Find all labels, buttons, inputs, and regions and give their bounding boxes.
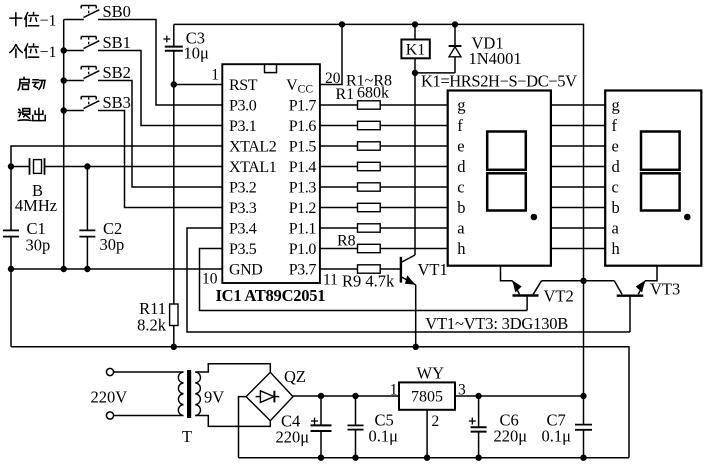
terminal 220V bottom — [106, 412, 113, 419]
junction 7805 out-mid vertical — [581, 393, 586, 398]
svg-text:P3.0: P3.0 — [229, 98, 257, 115]
junction K1 bottom — [412, 70, 417, 75]
transformer T core — [188, 371, 191, 418]
svg-text:P3.1: P3.1 — [229, 118, 257, 135]
junction pin20-rail — [339, 22, 344, 27]
svg-text:P3.2: P3.2 — [229, 180, 257, 197]
junction C7 bottom — [581, 455, 586, 460]
op-amp/IC U1 AT89C2051 box — [222, 64, 320, 283]
svg-text:RST: RST — [229, 77, 258, 94]
digit DS2 — [641, 132, 680, 211]
svg-text:T: T — [182, 427, 192, 446]
wire 7805 pin2 — [426, 410, 428, 458]
capacitor C6 — [471, 396, 487, 458]
capacitor C5 — [348, 396, 364, 458]
wire SB1 to P3.1 — [98, 51, 222, 126]
relay K1 — [401, 24, 429, 73]
junction SB3 bus — [61, 108, 66, 113]
pushbutton SB3 — [81, 97, 99, 109]
svg-text:1: 1 — [211, 67, 219, 84]
transformer T secondary winding — [195, 372, 200, 416]
svg-text:8.2k: 8.2k — [137, 316, 167, 335]
junction K1-rail — [412, 22, 417, 27]
resistor R3 — [320, 142, 448, 150]
svg-text:e: e — [612, 137, 619, 156]
svg-text:c: c — [457, 178, 464, 197]
svg-text:30p: 30p — [26, 236, 51, 255]
wire SB0 to P3.0 — [98, 20, 222, 106]
junction RST-C3 — [171, 82, 176, 87]
svg-text:XTAL2: XTAL2 — [229, 139, 277, 156]
svg-text:P1.2: P1.2 — [289, 200, 317, 217]
junction C4 bottom — [318, 455, 323, 460]
svg-text:220μ: 220μ — [276, 428, 310, 447]
wire XTAL2 to left column — [11, 146, 222, 230]
svg-text:P1.0: P1.0 — [289, 241, 317, 258]
label qi (chinese) — [18, 77, 29, 90]
crystal B — [30, 158, 45, 175]
svg-text:c: c — [612, 178, 619, 197]
label chu (chinese) — [33, 108, 45, 120]
wire bridge plus to regulator — [293, 395, 399, 397]
pushbutton SB0 — [81, 6, 99, 18]
svg-text:0.1μ: 0.1μ — [542, 427, 572, 446]
svg-text:K1: K1 — [406, 42, 426, 59]
wire segment c DS1-DS2 — [551, 186, 605, 188]
wire secondary top to bridge — [195, 364, 270, 373]
svg-text:−1: −1 — [40, 44, 57, 61]
svg-text:220μ: 220μ — [494, 427, 528, 446]
svg-text:h: h — [457, 239, 466, 258]
svg-text:QZ: QZ — [284, 367, 306, 386]
pushbutton SB1 — [81, 37, 99, 49]
wire GND pin to left column — [11, 268, 222, 270]
junction R11-ground rail — [171, 344, 176, 349]
svg-text:e: e — [457, 137, 464, 156]
svg-text:K1=HRS2H−S−DC−5V: K1=HRS2H−S−DC−5V — [421, 72, 577, 91]
junction collectors-+5V — [581, 278, 586, 283]
transistor VT3 — [584, 266, 658, 332]
junction crystal-left column — [8, 164, 13, 169]
svg-text:P1.6: P1.6 — [289, 118, 317, 135]
terminal 220V top — [106, 368, 113, 375]
resistor R8 — [320, 244, 448, 252]
wire segment b DS1-DS2 — [551, 207, 605, 209]
resistor R11 — [170, 85, 178, 347]
svg-text:1: 1 — [390, 382, 398, 399]
svg-text:4MHz: 4MHz — [15, 196, 57, 215]
svg-text:−1: −1 — [40, 12, 57, 29]
junction 7805 pin2-bottom rail — [424, 455, 429, 460]
C6 plus sign — [469, 418, 476, 425]
resistor R6 — [320, 203, 448, 211]
resistor R9 — [320, 265, 400, 273]
svg-text:d: d — [457, 157, 466, 176]
svg-text:VT1: VT1 — [418, 260, 448, 279]
resistor R7 — [320, 224, 448, 232]
resistor R5 — [320, 183, 448, 191]
svg-text:XTAL1: XTAL1 — [229, 159, 277, 176]
wire primary bottom — [114, 415, 184, 417]
bridge rectifier QZ — [246, 372, 293, 420]
wire SB2 to P3.2 — [98, 81, 222, 188]
decimal point DS2 — [685, 214, 691, 220]
wire 7805 out — [455, 395, 584, 397]
C4 plus sign — [311, 418, 318, 425]
svg-text:P3.4: P3.4 — [229, 221, 257, 238]
junction C6 bottom — [476, 455, 481, 460]
wire bridge minus to bottom rail — [239, 397, 247, 458]
wire SB2 left — [64, 80, 84, 82]
svg-text:R1: R1 — [336, 86, 355, 103]
junction C5 bottom — [353, 455, 358, 460]
svg-text:b: b — [612, 198, 620, 217]
decimal point DS1 — [531, 214, 537, 220]
resistor R2 — [320, 121, 448, 129]
wire crystal left lead — [11, 166, 30, 168]
resistor R1 — [320, 101, 448, 109]
label wei (chinese) — [25, 12, 39, 26]
svg-text:0.1μ: 0.1μ — [369, 427, 399, 446]
label shi (chinese) — [10, 13, 22, 26]
junction SB2 bus — [61, 78, 66, 83]
wire Vcc top rail — [174, 24, 584, 280]
svg-text:220V: 220V — [91, 388, 128, 407]
wire segment h DS1-DS2 — [551, 248, 605, 250]
junction C5 top — [353, 393, 358, 398]
svg-text:R9 4.7k: R9 4.7k — [342, 272, 395, 291]
capacitor C7 — [575, 396, 592, 458]
wire SB3 left — [64, 110, 84, 112]
label ge (chinese) — [10, 45, 22, 58]
junction GND-C2 — [85, 266, 90, 271]
svg-text:P1.1: P1.1 — [289, 221, 317, 238]
capacitor C2 — [79, 167, 95, 270]
junction C2-XTAL1 — [85, 164, 90, 169]
wire XTAL1 to crystal — [45, 166, 223, 168]
svg-text:R8: R8 — [337, 233, 356, 250]
wire secondary bottom to bridge — [195, 416, 270, 427]
wire segment a DS1-DS2 — [551, 227, 605, 229]
svg-text:SB1: SB1 — [103, 33, 131, 52]
wire segment g DS1-DS2 — [551, 104, 605, 106]
junction VT1 emitter-ground — [413, 344, 418, 349]
wire SB1 left — [64, 50, 84, 52]
svg-text:f: f — [612, 116, 618, 135]
transformer T primary winding — [178, 372, 183, 416]
svg-text:10μ: 10μ — [184, 44, 210, 63]
svg-text:10: 10 — [202, 271, 218, 288]
svg-text:WY: WY — [417, 364, 445, 383]
capacitor C3 — [165, 24, 183, 84]
svg-text:h: h — [612, 239, 621, 258]
resistor R4 — [320, 162, 448, 170]
capacitor C1 — [3, 230, 19, 346]
label tui (chinese) — [18, 109, 31, 121]
pushbutton SB2 — [81, 67, 99, 79]
junction GND-left column — [8, 266, 13, 271]
svg-text:1N4001: 1N4001 — [469, 49, 522, 68]
wire segment f DS1-DS2 — [551, 125, 605, 127]
junction SB1 bus — [61, 48, 66, 53]
wire segment e DS1-DS2 — [551, 145, 605, 147]
svg-text:b: b — [457, 198, 465, 217]
svg-text:7805: 7805 — [411, 389, 443, 406]
svg-text:680k: 680k — [357, 85, 389, 102]
transistor VT2 — [501, 266, 584, 311]
svg-text:IC1 AT89C2051: IC1 AT89C2051 — [216, 286, 326, 305]
wire pin20 to rail — [320, 24, 342, 84]
wire ground rail — [11, 347, 629, 458]
svg-text:g: g — [612, 96, 620, 115]
svg-text:d: d — [612, 157, 621, 176]
svg-text:2: 2 — [432, 413, 440, 430]
label C3 plus — [163, 36, 170, 43]
svg-text:P3.7: P3.7 — [289, 262, 317, 279]
svg-text:f: f — [457, 116, 463, 135]
junction GND-button bus — [61, 266, 66, 271]
svg-text:a: a — [612, 219, 620, 238]
junction C6 top — [476, 393, 481, 398]
capacitor C4 — [311, 396, 332, 458]
7-segment display DS2 — [605, 91, 701, 266]
wire P3.5 to VT2 base — [200, 249, 528, 311]
svg-text:SB0: SB0 — [103, 2, 131, 21]
digit DS1 — [487, 132, 526, 211]
wire button common bus — [63, 20, 65, 270]
svg-text:P1.7: P1.7 — [289, 98, 317, 115]
svg-text:VT3: VT3 — [650, 280, 680, 299]
svg-text:a: a — [457, 219, 465, 238]
regulator WY 7805 — [399, 382, 455, 409]
svg-text:P3.5: P3.5 — [229, 241, 257, 258]
svg-text:SB2: SB2 — [103, 63, 131, 82]
svg-text:g: g — [457, 96, 465, 115]
junction VD1-rail — [452, 22, 457, 27]
svg-text:P1.4: P1.4 — [289, 159, 317, 176]
svg-text:30p: 30p — [100, 235, 125, 254]
svg-text:VT2: VT2 — [544, 287, 574, 306]
junction C4 top — [318, 393, 323, 398]
svg-text:SB3: SB3 — [103, 93, 131, 112]
svg-text:P1.5: P1.5 — [289, 139, 317, 156]
svg-text:P1.3: P1.3 — [289, 180, 317, 197]
wire bottom rail — [239, 457, 630, 459]
svg-text:GND: GND — [229, 262, 262, 279]
wire SB0 left — [64, 19, 84, 21]
wire P3.4 to VT3 base — [187, 228, 630, 332]
svg-text:9V: 9V — [204, 388, 224, 407]
wire K1 to VD1 — [415, 72, 455, 74]
transistor VT1 — [401, 73, 416, 347]
wire +5V mid vertical — [583, 281, 585, 396]
svg-text:VT1~VT3: 3DG130B: VT1~VT3: 3DG130B — [425, 314, 568, 333]
7-segment display DS1 — [448, 91, 551, 266]
label dong (chinese) — [33, 80, 46, 90]
diode VD1 — [449, 24, 462, 73]
wire segment d DS1-DS2 — [551, 166, 605, 168]
label wei2 (chinese) — [25, 44, 39, 58]
svg-text:P3.3: P3.3 — [229, 200, 257, 217]
wire SB3 to P3.3 — [98, 111, 222, 208]
wire primary top — [114, 371, 184, 373]
wire RST — [174, 84, 223, 86]
